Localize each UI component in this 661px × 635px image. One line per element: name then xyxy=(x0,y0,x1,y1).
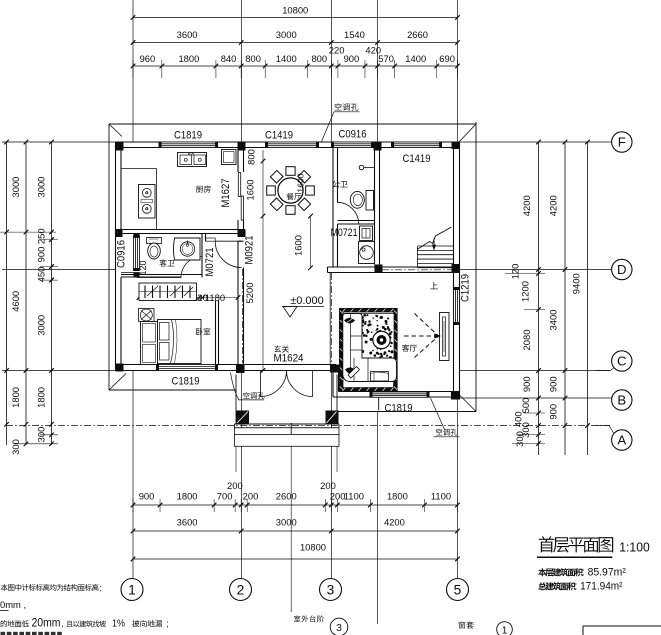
svg-text:1100: 1100 xyxy=(344,491,364,502)
kitchen/bath dividing wall xyxy=(116,229,246,231)
svg-text:20mm: 20mm xyxy=(32,618,61,630)
window C1419 (dining top) xyxy=(268,142,316,148)
door M0721 guest bath xyxy=(201,257,203,278)
svg-text:690: 690 xyxy=(439,53,455,64)
axis line F xyxy=(2,141,612,143)
schedule table corner xyxy=(583,625,661,627)
living rug speckles xyxy=(358,314,395,360)
stair hall axis D centerline xyxy=(382,269,452,271)
svg-text:C0916: C0916 xyxy=(116,240,128,268)
label 上 xyxy=(430,282,438,289)
note line 1 xyxy=(1,584,99,591)
bedroom bottom exterior wall xyxy=(116,370,337,372)
door M0721 public bath xyxy=(337,202,359,224)
svg-text:1800: 1800 xyxy=(36,387,47,408)
svg-text:1800: 1800 xyxy=(177,491,198,502)
guest-bath south wall xyxy=(121,274,202,276)
living rug frame hatch xyxy=(343,309,346,312)
svg-text:B: B xyxy=(617,393,626,408)
svg-text:700: 700 xyxy=(217,491,233,502)
axis bubble C xyxy=(596,370,611,372)
svg-text:3600: 3600 xyxy=(177,517,198,528)
window C1819 (bedroom bottom) xyxy=(159,365,215,371)
kitchen fridge xyxy=(222,150,237,165)
svg-text:900: 900 xyxy=(548,376,559,392)
kitchen sliding door M1627 xyxy=(238,173,240,197)
laundry sink xyxy=(360,226,373,241)
left exterior wall xyxy=(115,142,117,371)
dining chairs xyxy=(306,186,315,195)
axis bubble 1 xyxy=(121,579,143,601)
window C1819 (kitchen top) xyxy=(162,142,216,148)
stair-hall south wall (axis D) xyxy=(328,266,454,268)
svg-text:200: 200 xyxy=(243,491,259,502)
label 厨房 xyxy=(196,185,211,192)
svg-text:3000: 3000 xyxy=(36,315,47,336)
axis line C xyxy=(2,370,610,372)
svg-text:4600: 4600 xyxy=(10,291,21,312)
svg-text:5200: 5200 xyxy=(244,283,255,304)
svg-text:3400: 3400 xyxy=(548,310,559,331)
axis bubble 3 xyxy=(320,579,342,601)
bath vestibule wall xyxy=(206,238,216,241)
svg-text:2600: 2600 xyxy=(276,491,297,502)
svg-text:1200: 1200 xyxy=(520,281,531,302)
public-bath west wall xyxy=(332,148,334,268)
svg-text:1800: 1800 xyxy=(387,491,408,502)
svg-text:900: 900 xyxy=(36,247,47,263)
svg-text:900: 900 xyxy=(344,53,360,64)
title 首层平面图 xyxy=(539,536,613,552)
guest-bath east wall xyxy=(201,234,203,278)
svg-text:960: 960 xyxy=(140,53,156,64)
axis bubble B xyxy=(612,390,632,410)
overhang corner diagonals xyxy=(110,125,123,137)
porch steps xyxy=(235,428,340,435)
window C1419 (stair top) xyxy=(394,142,439,148)
svg-text:3000: 3000 xyxy=(10,177,21,198)
TV sightlines xyxy=(415,314,439,336)
stairs xyxy=(418,245,454,247)
svg-text:3000: 3000 xyxy=(276,517,297,528)
svg-text:4200: 4200 xyxy=(521,195,532,216)
svg-text:800: 800 xyxy=(246,149,257,165)
axis bubble A xyxy=(596,425,609,427)
label 客卫 xyxy=(159,259,174,266)
svg-text:F: F xyxy=(618,135,626,150)
bedroom closet dim xyxy=(139,297,238,299)
title underline xyxy=(537,556,613,558)
svg-text:1: 1 xyxy=(502,626,508,635)
hall dim 1600 xyxy=(310,216,312,268)
svg-text:1400: 1400 xyxy=(276,53,297,64)
hall east edge line xyxy=(329,273,331,365)
dining table xyxy=(278,178,303,203)
hall axis3 centerline xyxy=(331,273,333,369)
label 卧室 xyxy=(196,328,210,335)
porch step leaders xyxy=(235,446,237,472)
svg-text:3000: 3000 xyxy=(276,29,297,40)
living sofa xyxy=(343,314,397,382)
closet hangers xyxy=(144,286,146,299)
label 客厅 xyxy=(402,344,417,351)
svg-text:,: , xyxy=(61,619,64,629)
area line 1 xyxy=(538,568,583,576)
svg-text:300: 300 xyxy=(10,439,21,455)
svg-text:1:100: 1:100 xyxy=(619,541,650,555)
kitchen counter xyxy=(121,168,157,170)
washing machine xyxy=(359,242,375,264)
axis bubble 5 xyxy=(447,579,469,601)
svg-text:3: 3 xyxy=(336,622,342,634)
svg-text:1800: 1800 xyxy=(178,53,199,64)
label 公卫 xyxy=(333,181,348,188)
svg-text:2080: 2080 xyxy=(521,330,532,351)
svg-text:2: 2 xyxy=(237,582,245,597)
corridor west wall (axis2) xyxy=(237,241,239,364)
kitchen-dining wall (axis2) xyxy=(237,148,239,173)
svg-text:1400: 1400 xyxy=(405,53,426,64)
svg-text:1: 1 xyxy=(128,582,136,597)
living rug frame xyxy=(341,310,395,389)
svg-text:: 85.97m²: : 85.97m² xyxy=(582,567,626,579)
axis line 5 xyxy=(457,0,459,578)
svg-text:A: A xyxy=(617,433,626,448)
svg-text:570: 570 xyxy=(378,53,394,64)
svg-text:C: C xyxy=(617,354,627,369)
svg-text:1600: 1600 xyxy=(296,173,306,192)
svg-text:120: 120 xyxy=(510,264,521,280)
AC hole note top xyxy=(335,103,359,110)
svg-text:C1819: C1819 xyxy=(172,376,200,388)
detail bubble 1 xyxy=(497,622,513,635)
living-room west wall xyxy=(332,371,334,398)
sofa magazine xyxy=(371,372,389,382)
axis line A xyxy=(6,425,610,427)
note line 4 (cut) xyxy=(1,632,6,635)
window C1219 (east) xyxy=(454,290,460,322)
svg-text:1540: 1540 xyxy=(344,29,365,40)
kitchen sink xyxy=(178,153,207,167)
svg-text:3: 3 xyxy=(327,582,335,597)
axis line 1 xyxy=(132,0,134,578)
top exterior wall xyxy=(116,141,460,143)
svg-text:900: 900 xyxy=(139,491,155,502)
axis line 3 xyxy=(331,0,333,578)
svg-text:9400: 9400 xyxy=(571,273,582,294)
bedroom east wall xyxy=(215,301,217,365)
svg-text:300: 300 xyxy=(514,431,525,447)
public-bath east wall (axis4) xyxy=(374,148,376,265)
building floor fill xyxy=(116,142,460,397)
bedroom bed xyxy=(158,320,202,364)
svg-text:900: 900 xyxy=(548,404,559,420)
window C0916 (guest bath, west niche) xyxy=(121,233,140,235)
label 室外台阶 xyxy=(294,615,324,622)
svg-text:M1624: M1624 xyxy=(274,353,304,365)
AC hole note living xyxy=(436,429,457,436)
living round table xyxy=(373,331,390,348)
svg-text:2660: 2660 xyxy=(407,29,428,40)
svg-text:1100: 1100 xyxy=(431,491,451,502)
bedroom closet xyxy=(139,283,197,301)
svg-text:1600: 1600 xyxy=(245,180,256,201)
porch columns xyxy=(236,411,249,425)
window C1819 (living bottom) xyxy=(373,392,427,397)
svg-text:1800: 1800 xyxy=(10,387,21,408)
sofa cushions xyxy=(345,318,355,323)
laundry dividing wall xyxy=(338,220,375,222)
roof overhang outline xyxy=(109,123,476,125)
svg-text:D: D xyxy=(617,262,627,277)
svg-text:250: 250 xyxy=(36,228,47,244)
svg-text:4200: 4200 xyxy=(384,517,405,528)
svg-text:4200: 4200 xyxy=(548,195,559,216)
corridor axis2 centerline xyxy=(242,269,244,363)
living-room bottom exterior wall xyxy=(333,396,460,398)
svg-text:900: 900 xyxy=(521,376,532,392)
top dimension rows xyxy=(133,17,458,19)
svg-text:220: 220 xyxy=(329,45,345,56)
svg-text:M1627: M1627 xyxy=(220,179,232,208)
svg-text:: 171.94m²: : 171.94m² xyxy=(575,581,623,593)
living TV xyxy=(440,313,450,361)
kitchen stove xyxy=(139,185,156,219)
public bath shower xyxy=(359,165,364,170)
label 窗套 xyxy=(459,621,474,628)
label 玄关 xyxy=(274,345,289,352)
svg-text:840: 840 xyxy=(221,53,237,64)
label 餐厅 xyxy=(286,193,301,200)
svg-text:200: 200 xyxy=(320,480,336,491)
svg-text:3600: 3600 xyxy=(177,29,198,40)
window C0916 (top) xyxy=(334,142,371,148)
svg-text:120: 120 xyxy=(138,260,148,275)
svg-text:C1419: C1419 xyxy=(265,130,293,142)
porch slab xyxy=(235,375,237,425)
area line 2 xyxy=(538,582,575,590)
axis bubble 2 xyxy=(230,579,252,601)
svg-text:M0721: M0721 xyxy=(204,248,216,277)
svg-text:800: 800 xyxy=(245,53,261,64)
axis bubble F xyxy=(612,132,632,152)
svg-text:C1219: C1219 xyxy=(460,274,472,302)
axis bubble D xyxy=(612,259,632,279)
svg-text:C1819: C1819 xyxy=(174,130,202,142)
axis line B xyxy=(455,397,612,399)
svg-text:±0.000: ±0.000 xyxy=(290,295,324,307)
svg-text:C1819: C1819 xyxy=(385,403,413,415)
right exterior wall xyxy=(459,142,461,397)
svg-text:1%: 1% xyxy=(112,618,125,630)
bedroom plant xyxy=(139,309,155,322)
svg-text:C1419: C1419 xyxy=(403,153,431,165)
entry door M1624 (double swing) xyxy=(261,371,287,397)
axis line 2 xyxy=(241,0,243,578)
svg-text:M0921: M0921 xyxy=(244,236,256,265)
wall columns xyxy=(116,142,124,151)
svg-text:300: 300 xyxy=(36,427,47,443)
svg-text:3000: 3000 xyxy=(36,177,47,198)
right dimension chains xyxy=(538,142,540,455)
axis line D xyxy=(2,269,612,271)
bedroom dresser xyxy=(141,322,158,365)
svg-text:;: ; xyxy=(99,583,101,592)
detail bubble 3 xyxy=(330,618,348,635)
svg-text:500: 500 xyxy=(520,398,531,414)
axis line 4 xyxy=(377,0,379,142)
left dimension chains xyxy=(6,142,8,445)
bottom dimension rows xyxy=(133,504,458,506)
svg-text:0mm ,: 0mm , xyxy=(0,599,26,610)
note line 3 xyxy=(1,620,29,627)
svg-text:200: 200 xyxy=(227,480,243,491)
svg-text:C0916: C0916 xyxy=(339,129,367,141)
svg-text:10800: 10800 xyxy=(282,5,308,16)
door M0921 (corridor arc) xyxy=(215,241,241,267)
svg-text:5: 5 xyxy=(454,582,462,597)
public bath toilet xyxy=(366,191,374,211)
svg-text:;: ; xyxy=(166,619,169,629)
svg-text:M0721: M0721 xyxy=(331,227,358,239)
guest bath toilet xyxy=(147,238,162,244)
svg-text:10800: 10800 xyxy=(300,542,326,553)
guest bath basin xyxy=(174,238,201,260)
svg-text:1600: 1600 xyxy=(293,235,304,256)
svg-text:800: 800 xyxy=(311,53,327,64)
dining interior dim chain xyxy=(262,150,264,371)
AC hole note porch xyxy=(243,392,264,399)
